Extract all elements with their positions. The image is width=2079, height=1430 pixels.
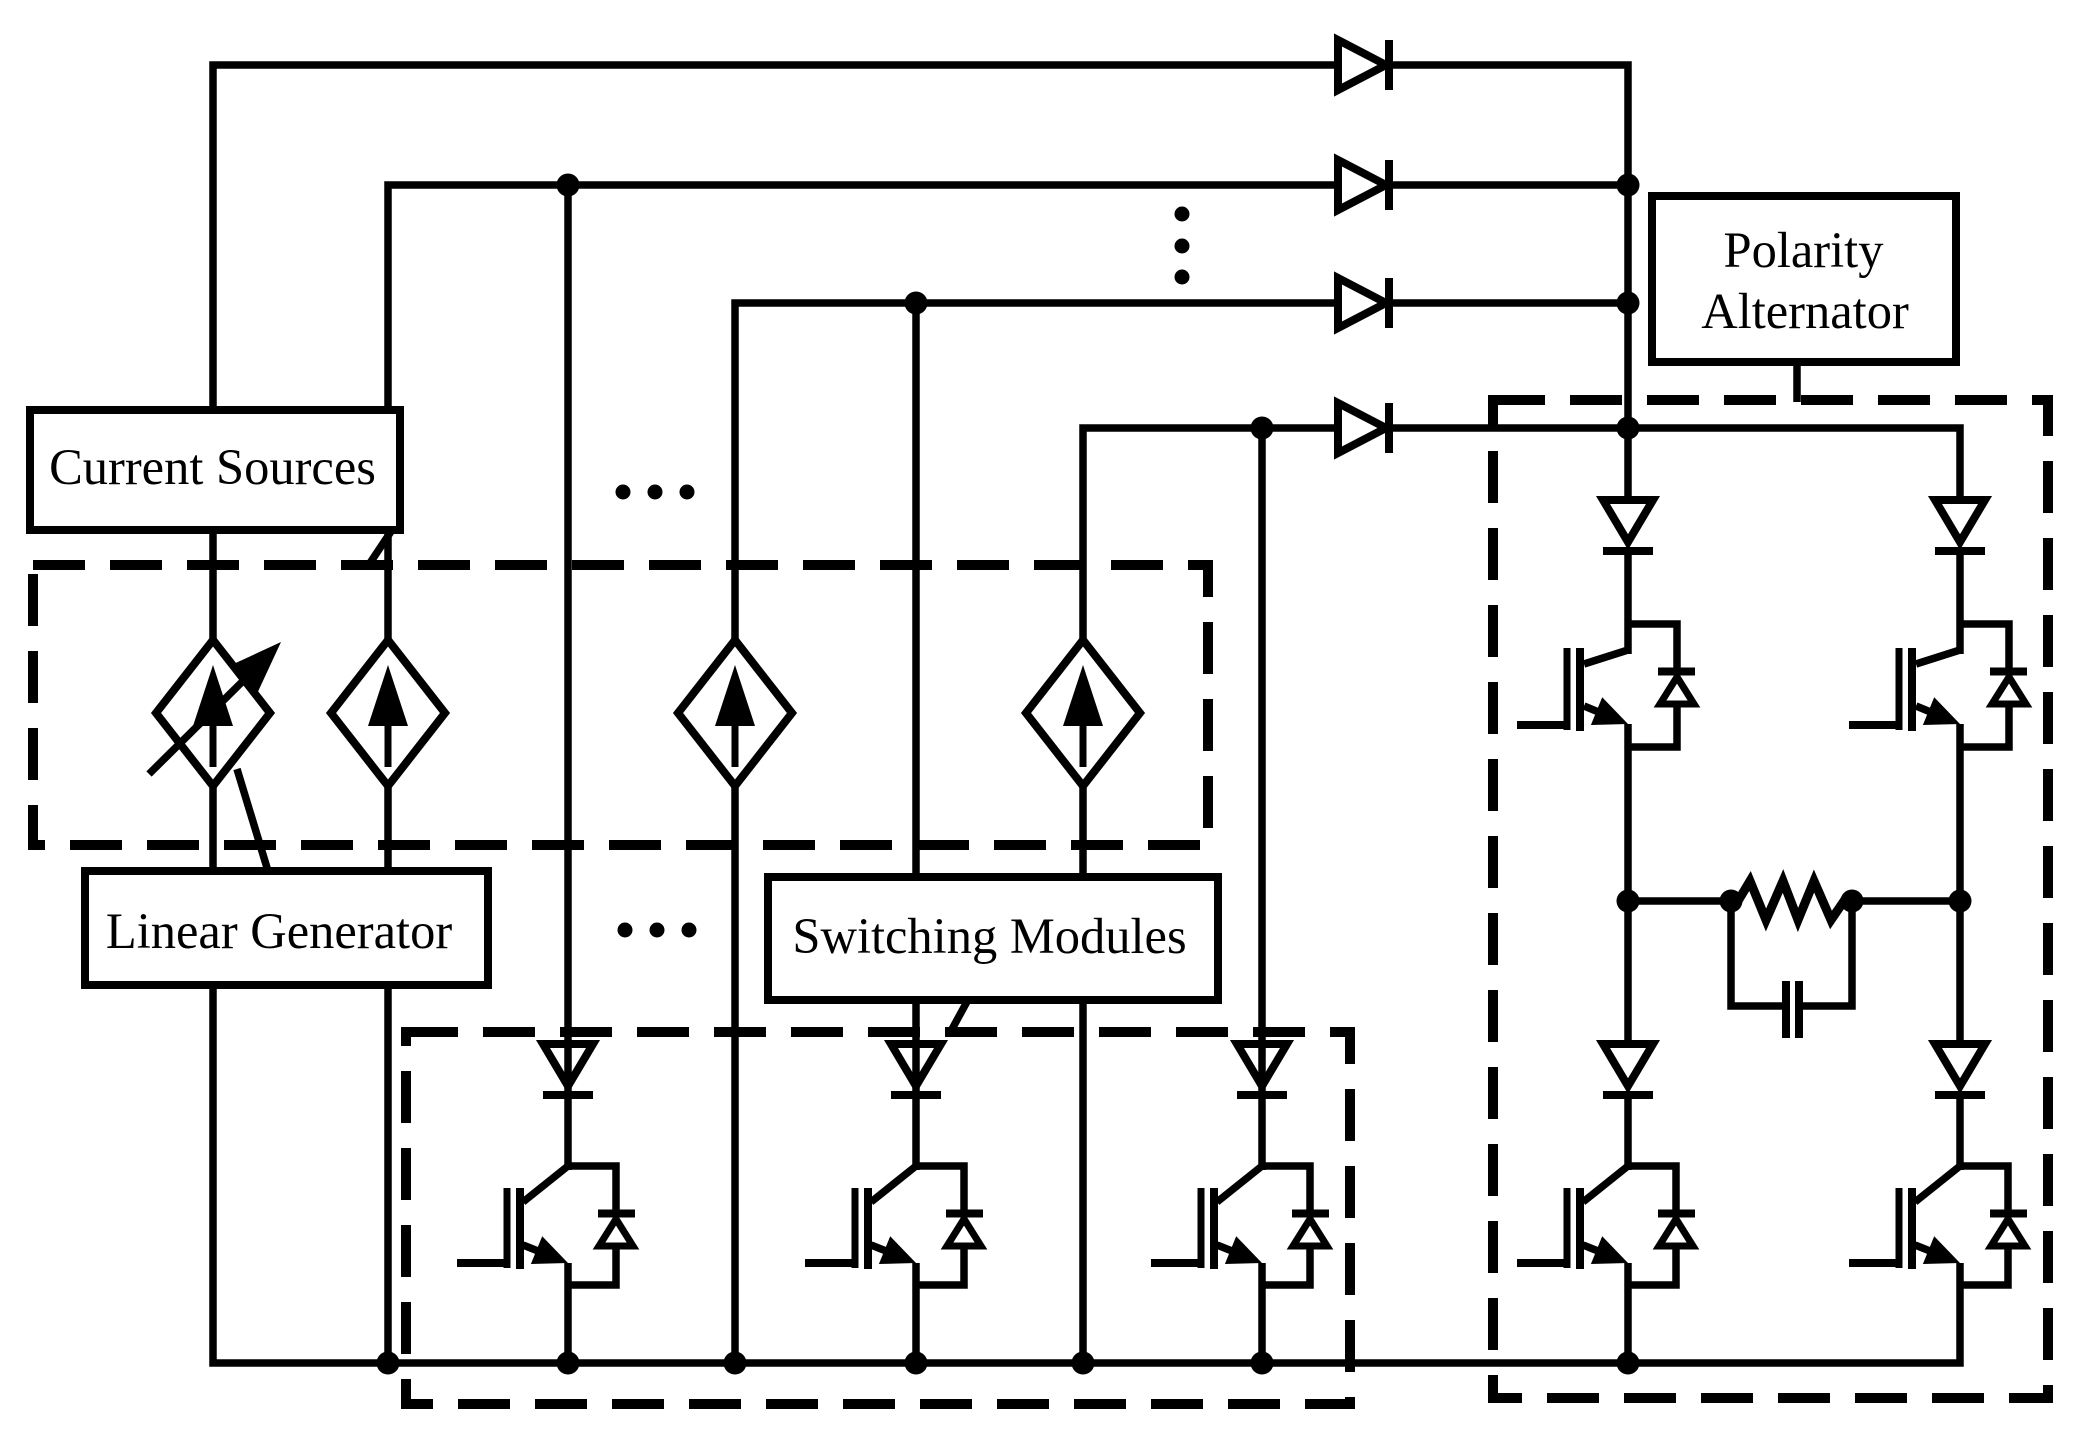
svg-text:Polarity: Polarity xyxy=(1724,222,1885,278)
wire: top bus from linear generator column to rectifier rail xyxy=(213,65,1338,640)
wire: right rectifier rail xyxy=(1388,65,1628,496)
IGBT Q7 bottom-right of polarity alternator xyxy=(1915,1166,1960,1202)
wire: column 4 lower xyxy=(1079,786,1087,1363)
resistor R1 (load) xyxy=(1731,881,1852,920)
wire: third source bus xyxy=(735,303,1338,640)
node: bus 3 tap for module 2 xyxy=(905,292,928,315)
node: bus 2 tap for module 1 xyxy=(557,174,580,197)
node: bottom rail at col3 xyxy=(724,1352,747,1375)
node: bottom rail at module2 xyxy=(905,1352,928,1375)
wire: H-bridge output mid line xyxy=(1628,897,1731,905)
diode D7 bottom-left of polarity alternator xyxy=(1603,1044,1653,1086)
variable-source arrow across I1 xyxy=(149,677,247,774)
diode D4 on fourth bus xyxy=(1338,403,1386,453)
wire: switching module 3 column xyxy=(1258,428,1266,1170)
node: mid line left xyxy=(1617,890,1640,913)
node: bus 4 tap for module 3 xyxy=(1251,417,1274,440)
node: load right xyxy=(1841,890,1864,913)
IGBT Q4 top-left of polarity alternator xyxy=(1584,650,1628,664)
node: bottom rail at module1 xyxy=(557,1352,580,1375)
wire: module 3 emitter to bottom rail xyxy=(1258,1263,1266,1363)
wire: module 1 emitter to bottom rail xyxy=(564,1263,572,1363)
wire: bus from rail junction to right H-bridge leg xyxy=(1388,428,1960,496)
wire: left leg collector xyxy=(1624,549,1632,654)
pointer: linear generator label to source I1 xyxy=(237,769,268,871)
svg-text:Current Sources: Current Sources xyxy=(49,439,376,495)
wire: left leg emitter to bottom rail xyxy=(1624,1263,1632,1363)
diode D3 on third bus xyxy=(1338,278,1386,328)
capacitor C1 (load) xyxy=(1782,981,1790,1038)
current source I4 xyxy=(1026,640,1140,786)
diode D1 on top bus xyxy=(1338,40,1386,90)
diode D6 top-right of polarity alternator xyxy=(1935,500,1985,542)
svg-text:Switching Modules: Switching Modules xyxy=(792,908,1186,964)
diode of switching module 3 xyxy=(1237,1044,1287,1086)
node: bottom rail at H-left xyxy=(1617,1352,1640,1375)
diode D5 top-left of polarity alternator xyxy=(1603,500,1653,542)
node: load left xyxy=(1720,890,1743,913)
ellipsis between source columns (bottom) xyxy=(618,923,633,938)
dashed box: switching modules group xyxy=(406,1032,1350,1404)
diode of switching module 2 xyxy=(891,1044,941,1086)
wire: column 3 lower xyxy=(731,786,739,1363)
dashed box: polarity alternator group xyxy=(1493,400,2048,1398)
IGBT Q2 of switching module 2 xyxy=(871,1166,916,1202)
current source I2 xyxy=(331,640,445,786)
wire: switching module 1 column xyxy=(564,185,572,1170)
wire: switching module 2 column xyxy=(912,303,920,1170)
wire: right leg emitter to mid node xyxy=(1956,724,1964,1040)
current source I1 (variable, linear generator) xyxy=(156,640,270,786)
wire: capacitor branch right xyxy=(1802,901,1852,1006)
wire: capacitor branch left xyxy=(1731,901,1783,1006)
pointer: polarity alternator label to group xyxy=(1793,362,1801,402)
pointer: current sources label to group xyxy=(368,530,392,566)
wire: second source bus xyxy=(388,185,1338,640)
current source I3 xyxy=(678,640,792,786)
node: bottom rail at col2 xyxy=(377,1352,400,1375)
svg-text:Alternator: Alternator xyxy=(1701,283,1909,339)
IGBT Q5 top-right of polarity alternator xyxy=(1916,650,1960,664)
IGBT Q1 of switching module 1 xyxy=(523,1166,568,1202)
ellipsis between source columns (top) xyxy=(616,485,631,500)
node: rail-bus2 junction xyxy=(1617,174,1640,197)
pointer: switching modules label to group xyxy=(951,998,969,1031)
wire: fourth source bus xyxy=(1083,428,1338,640)
label box: Linear Generator xyxy=(85,871,488,985)
node: mid line right xyxy=(1949,890,1972,913)
IGBT Q6 bottom-left of polarity alternator xyxy=(1583,1166,1628,1202)
node: bottom rail at col4 xyxy=(1072,1352,1095,1375)
wire: module 2 emitter to bottom rail xyxy=(912,1263,920,1363)
label box: Switching Modules xyxy=(768,877,1218,1000)
dashed box: current sources group xyxy=(33,565,1208,845)
wire: column 1 lower + bottom return rail xyxy=(213,786,1960,1363)
node: rail-bus3 junction xyxy=(1617,292,1640,315)
vertical ellipsis between buses xyxy=(1175,207,1190,222)
diode D2 on second bus xyxy=(1338,160,1386,210)
IGBT Q3 of switching module 3 xyxy=(1217,1166,1262,1202)
wire: left leg emitter to mid node xyxy=(1624,724,1632,1040)
label box: Current Sources xyxy=(30,410,400,530)
svg-text:Linear Generator: Linear Generator xyxy=(106,903,452,959)
wire: column 2 lower xyxy=(384,786,392,1363)
wire: left leg lower collector xyxy=(1624,1093,1632,1170)
node: bottom rail at module3 xyxy=(1251,1352,1274,1375)
diode of switching module 1 xyxy=(543,1044,593,1086)
diode D8 bottom-right of polarity alternator xyxy=(1935,1044,1985,1086)
node: rail-bus4 junction xyxy=(1617,417,1640,440)
label box: Polarity Alternator xyxy=(1652,196,1956,362)
